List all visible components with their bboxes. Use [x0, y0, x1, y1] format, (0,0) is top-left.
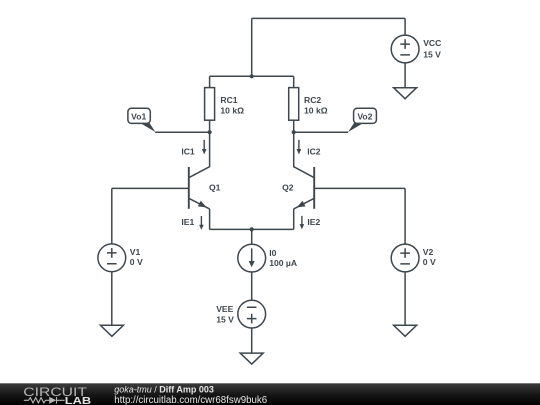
wire V1 top lead — [111, 188, 113, 244]
voltage source V1 — [98, 244, 126, 272]
wire V2 bottom lead to ground — [404, 272, 406, 325]
svg-text:10 kΩ: 10 kΩ — [304, 105, 328, 115]
wire Q2 collector lead — [294, 132, 315, 178]
wire node Vo1 to Q1 collector — [155, 131, 209, 133]
footer bar — [0, 383, 540, 405]
svg-text:10 kΩ: 10 kΩ — [220, 105, 244, 115]
svg-text:LAB: LAB — [65, 396, 91, 405]
ground (V2) — [394, 325, 417, 336]
wire RC2 bottom lead — [293, 120, 295, 132]
svg-text:0 V: 0 V — [423, 257, 436, 267]
wire Q1 base lead — [112, 187, 188, 189]
svg-text:IE1: IE1 — [181, 217, 194, 227]
svg-text:Q1: Q1 — [209, 183, 221, 193]
wire emitter rail — [210, 228, 294, 230]
svg-text:http://circuitlab.com/cwr68fsw: http://circuitlab.com/cwr68fsw9buk6 — [114, 395, 267, 405]
svg-text:Vo2: Vo2 — [357, 112, 372, 122]
svg-text:IE2: IE2 — [307, 217, 320, 227]
wire node Vo2 from Q2 collector — [294, 131, 349, 133]
svg-text:RC1: RC1 — [220, 95, 237, 105]
node flag Vo2 — [348, 108, 376, 132]
svg-text:I0: I0 — [269, 248, 276, 258]
svg-text:IC1: IC1 — [181, 146, 195, 156]
wire RC2 top lead — [293, 76, 295, 87]
junction node at top rail — [250, 74, 254, 78]
current arrow IE2 — [300, 216, 305, 230]
wire I0 to VEE — [251, 272, 253, 300]
transistor Q1 — [189, 167, 210, 209]
wire resistor top rail — [210, 75, 294, 77]
svg-text:RC2: RC2 — [304, 95, 321, 105]
voltage source VCC — [391, 35, 419, 63]
wire Q1 collector lead — [189, 132, 210, 178]
svg-text:0 V: 0 V — [130, 257, 143, 267]
node flag Vo1 — [128, 108, 155, 132]
svg-text:V2: V2 — [423, 247, 434, 257]
wire VCC source bottom lead to ground — [404, 63, 406, 88]
wire V1 bottom lead to ground — [111, 272, 113, 326]
wire I0 top lead — [251, 229, 253, 244]
svg-text:V1: V1 — [130, 247, 141, 257]
svg-text:VCC: VCC — [423, 38, 441, 48]
current arrow IC2 — [297, 140, 302, 155]
wire center drop from top rail — [251, 18, 253, 76]
wire Q1 emitter vertical lead — [209, 209, 211, 230]
current arrow IC1 — [202, 140, 207, 155]
wire RC1 top lead — [209, 76, 211, 87]
resistor RC2 — [289, 88, 299, 121]
junction node Q1 collector — [208, 130, 212, 134]
junction node emitter rail — [250, 227, 254, 231]
wire Q2 base lead — [315, 187, 405, 189]
wire VEE bottom lead to ground — [251, 328, 253, 353]
ground (VCC) — [394, 88, 417, 99]
wire top rail VCC net — [252, 17, 405, 19]
current source I0 — [238, 244, 266, 272]
svg-text:IC2: IC2 — [307, 147, 321, 157]
svg-text:Vo1: Vo1 — [131, 112, 146, 122]
wire VCC source top lead — [404, 18, 406, 35]
resistor RC1 — [205, 88, 215, 121]
transistor Q2 — [294, 167, 315, 209]
ground (VEE) — [240, 353, 263, 364]
wire V2 top lead — [404, 188, 406, 244]
ground (V1) — [100, 325, 123, 336]
junction node Q2 collector — [292, 130, 296, 134]
voltage source V2 — [391, 244, 419, 272]
CircuitLab logo resistor-diode squiggle — [24, 397, 65, 404]
svg-text:15 V: 15 V — [423, 49, 441, 59]
svg-text:Q2: Q2 — [282, 183, 294, 193]
wire RC1 bottom lead — [209, 120, 211, 132]
svg-text:VEE: VEE — [216, 304, 233, 314]
voltage source VEE — [238, 300, 266, 328]
wire Q2 emitter vertical lead — [293, 209, 295, 230]
current arrow IE1 — [199, 216, 204, 230]
svg-text:100 µA: 100 µA — [269, 258, 297, 268]
svg-text:15 V: 15 V — [216, 314, 234, 324]
svg-text:goka-tmu / Diff Amp 003: goka-tmu / Diff Amp 003 — [114, 385, 214, 395]
